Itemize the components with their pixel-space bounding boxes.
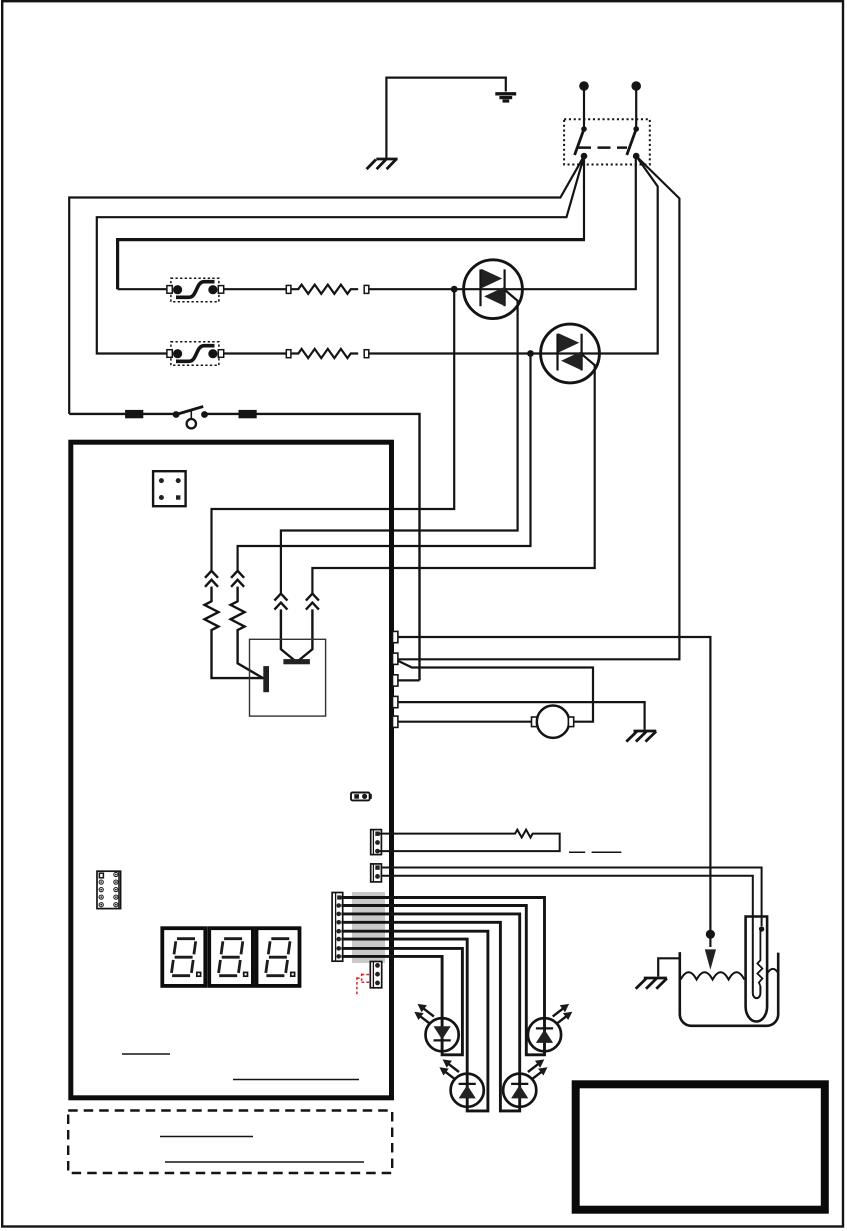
wire line3 thick run bbox=[118, 240, 585, 290]
label line c bbox=[122, 1053, 170, 1055]
wire CN4-1 LED4 loop bbox=[341, 898, 544, 1055]
wire R-A to triac Q1 and on to relay bbox=[369, 156, 636, 289]
fuse holder block left bbox=[125, 410, 143, 418]
wire R-B to triac Q2 and up bbox=[369, 156, 658, 353]
node on probe wire bbox=[706, 930, 715, 939]
label line f bbox=[165, 1161, 364, 1163]
wire tank ground bbox=[658, 958, 680, 976]
dashed note box bbox=[68, 1111, 392, 1174]
resistor R-B bbox=[286, 349, 369, 358]
triac Q1 bbox=[464, 260, 523, 319]
wire line3 to fuse F1 bbox=[118, 288, 168, 290]
varistor R3 chevrons bbox=[274, 594, 296, 662]
resistor R2 vertical bbox=[231, 571, 264, 679]
board pin P1 bbox=[393, 631, 398, 642]
wire CN2 sensor loop with resistor R5 bbox=[380, 830, 560, 851]
connector icon CN1 bbox=[153, 471, 186, 506]
resistor R-A bbox=[286, 285, 369, 294]
wire F2 to R-B bbox=[224, 352, 287, 354]
wire earth link top-left bbox=[386, 78, 505, 159]
transistor Q3 box bbox=[250, 639, 326, 716]
wire relay pole1 to line2 bbox=[97, 156, 584, 353]
wire relay pole1 to line1 bbox=[69, 156, 584, 414]
connector CN2 bbox=[371, 830, 382, 855]
terminal L2 bbox=[631, 81, 641, 91]
relay switch pole 1 bbox=[575, 126, 588, 159]
wire node J1 to R1 bbox=[212, 289, 455, 571]
connector CN3 bbox=[371, 864, 382, 882]
wire P2 to relay (long) bbox=[398, 156, 680, 659]
wire P3 up to switch bbox=[398, 679, 420, 681]
node J1 bbox=[451, 286, 458, 293]
control board box bbox=[71, 442, 392, 1098]
varistor R4 chevrons bbox=[297, 594, 319, 662]
board pin P4 bbox=[393, 696, 398, 707]
gray band bbox=[352, 892, 385, 963]
chassis ground tank bbox=[636, 978, 667, 989]
wire P2 to motor return bbox=[399, 661, 594, 722]
wire P1 to probe arrow bbox=[398, 637, 711, 947]
water tank bbox=[680, 952, 778, 1026]
wire CN4-6 LED2 loop bbox=[341, 931, 488, 1111]
wire gate Q2 to R4 bbox=[312, 355, 594, 594]
wire mains switch row bbox=[69, 414, 419, 681]
transistor Q3 plate bbox=[283, 659, 310, 664]
wire P4 to ground bbox=[398, 702, 645, 729]
wire CN3 pin2 to probe sheath bbox=[381, 876, 760, 998]
LED3 bbox=[503, 1059, 547, 1106]
wire CN3 pin1 to probe dot bbox=[381, 868, 761, 927]
water fill arrow bbox=[705, 949, 716, 969]
relay mechanical link dashed bbox=[578, 146, 627, 149]
seven segment display D3 bbox=[257, 928, 300, 986]
wire F1 to R-A bbox=[224, 288, 287, 290]
fuse F2 (thermal cutout) bbox=[167, 342, 224, 366]
red dashed mark bbox=[357, 974, 370, 996]
board pin P2 bbox=[393, 653, 398, 664]
connector CN5 small bbox=[370, 962, 381, 988]
node J2 bbox=[527, 350, 534, 357]
LED4 bbox=[528, 1004, 572, 1051]
relay K1 dotted box bbox=[564, 119, 650, 164]
probe tube bbox=[746, 917, 768, 1022]
label line b bbox=[592, 851, 622, 853]
chassis ground motor bbox=[626, 731, 656, 742]
wire gate Q1 to R3 bbox=[281, 291, 518, 594]
wire CN4-3 LED3 loop bbox=[341, 914, 519, 1111]
wire terminal L1 to relay bbox=[583, 90, 585, 127]
wire node J2 to R2 bbox=[238, 354, 531, 572]
wire P5 to motor bbox=[398, 721, 532, 723]
board pin P5 bbox=[393, 716, 398, 727]
wire CN4-8 LED1 loop bbox=[341, 948, 462, 1054]
board pin P3 bbox=[393, 675, 398, 686]
wire relay pole1 to line3 bbox=[583, 156, 585, 240]
label line e bbox=[160, 1136, 253, 1138]
label line a bbox=[569, 851, 585, 853]
seven segment display D2 bbox=[209, 928, 253, 986]
wire terminal L2 to relay bbox=[635, 90, 637, 127]
fuse holder block right bbox=[239, 410, 257, 418]
terminal L1 bbox=[579, 81, 589, 91]
LED1 bbox=[414, 1004, 458, 1051]
DIP IC U1 bbox=[97, 871, 121, 908]
seven segment display D1 bbox=[162, 928, 205, 986]
fuse F1 (thermal cutout) bbox=[167, 278, 224, 302]
relay switch pole 2 bbox=[627, 126, 640, 159]
resistor R1 vertical bbox=[205, 571, 264, 678]
jumper JP1 bbox=[351, 793, 372, 801]
water surface right bbox=[767, 969, 778, 974]
probe element zigzag bbox=[757, 931, 762, 986]
connector CN4 tall bbox=[332, 893, 343, 962]
label line d bbox=[233, 1079, 359, 1081]
motor M1 bbox=[532, 706, 574, 738]
water surface bbox=[681, 972, 745, 979]
transistor Q3 base bar bbox=[263, 666, 269, 692]
earth ground symbol bbox=[495, 94, 516, 101]
triac Q2 bbox=[541, 324, 600, 383]
probe element dot bbox=[759, 926, 764, 931]
switch S1 bbox=[173, 407, 208, 429]
LED2 bbox=[439, 1059, 483, 1106]
black frame box bbox=[576, 1084, 825, 1209]
chassis ground top-left bbox=[367, 159, 398, 169]
